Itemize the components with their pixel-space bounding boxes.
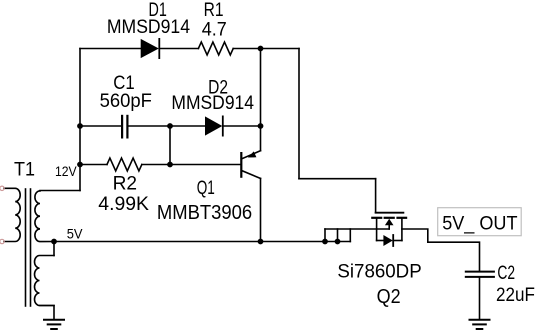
wire D1 cathode to R1	[159, 48, 198, 50]
transformer T1 core	[26, 189, 31, 306]
wire source pins rail tick 1	[324, 229, 326, 242]
wire left vertical (12V rail riser)	[79, 49, 81, 191]
svg-text:MMSD914: MMSD914	[171, 93, 254, 114]
transformer T1 primary winding	[4, 188, 20, 241]
transistor Q1 emitter	[242, 151, 260, 159]
capacitor C2	[466, 272, 494, 277]
wire output from source	[402, 229, 480, 271]
transistor Q1 MMBT3906 base bar	[240, 153, 242, 177]
wire Q1 emitter riser	[260, 126, 262, 151]
diode D2 MMSD914	[205, 116, 223, 135]
svg-text:22uF: 22uF	[496, 285, 535, 306]
net label box 5V_OUT	[438, 208, 522, 236]
svg-text:R1: R1	[204, 0, 224, 21]
junction node emitter	[258, 123, 264, 129]
junction node C1 row left	[77, 123, 83, 129]
transformer T1 secondary winding (12V section)	[35, 191, 54, 242]
wire gate feed horizontal	[299, 178, 376, 180]
svg-text:560pF: 560pF	[100, 91, 152, 112]
wire 5V rail	[54, 241, 350, 243]
ground (transformer)	[44, 320, 64, 329]
svg-text:C2: C2	[497, 263, 515, 284]
wire C2 to ground	[479, 277, 481, 320]
junction node top rail	[258, 46, 264, 52]
wire top rail left	[80, 48, 141, 50]
svg-text:Si7860DP: Si7860DP	[337, 262, 421, 283]
junction node collector on 5V rail	[258, 239, 264, 245]
transformer T1 primary terminal bottom	[0, 239, 4, 243]
junction node 12V	[77, 162, 83, 168]
MOSFET Q2 channel segment 2	[385, 217, 394, 219]
svg-text:4.99K: 4.99K	[98, 194, 149, 215]
capacitor C1	[122, 116, 127, 137]
svg-text:MMSD914: MMSD914	[107, 17, 191, 38]
junction node center tap	[51, 239, 57, 245]
wire body connection	[325, 228, 389, 230]
wire C1 row to R2 row vertical	[169, 126, 171, 165]
svg-text:12V: 12V	[55, 163, 77, 179]
ground (C2)	[470, 320, 490, 329]
wire node to D2 anode	[170, 125, 205, 127]
wire gate feed vertical	[298, 49, 300, 179]
junction node C1/D2	[167, 123, 173, 129]
svg-text:MMBT3906: MMBT3906	[157, 201, 252, 224]
wire emitter node riser	[260, 49, 262, 127]
wire source pins rail tick 3	[349, 229, 351, 242]
wire C1 row left	[80, 125, 121, 127]
MOSFET Q2 gate bar	[376, 212, 404, 214]
wire D2 cathode to emitter node	[223, 125, 261, 127]
resistor R1	[198, 42, 233, 55]
wire center tap drop	[53, 242, 55, 256]
wire top rail to gate drop	[261, 48, 300, 50]
diode D1 MMSD914	[141, 39, 160, 58]
resistor R2	[107, 158, 142, 171]
svg-text:T1: T1	[14, 160, 35, 181]
wire gate feed drop	[375, 179, 377, 213]
transistor Q1 collector	[242, 171, 260, 179]
wire R1 to node	[233, 48, 260, 50]
svg-text:R2: R2	[113, 174, 138, 195]
junction node source pin 2	[335, 239, 341, 245]
svg-text:5V: 5V	[67, 225, 83, 241]
svg-text:Q1: Q1	[197, 178, 215, 199]
transformer T1 secondary winding (5V section)	[35, 256, 55, 306]
MOSFET Q2 body diode	[377, 235, 402, 246]
MOSFET Q2 body arrow	[385, 219, 394, 229]
junction node R2 row	[167, 162, 173, 168]
MOSFET Q2 channel segment 3	[398, 217, 407, 219]
wire 12V winding stub	[40, 190, 80, 192]
MOSFET Q2 source stem	[401, 218, 403, 241]
wire source pins rail tick 2	[337, 229, 339, 242]
MOSFET Q2 channel segment 1	[372, 217, 381, 219]
wire 5V winding to ground stem	[40, 306, 55, 320]
svg-text:4.7: 4.7	[202, 20, 227, 41]
wire C1 to node	[129, 125, 171, 127]
MOSFET Q2 drain stem	[376, 218, 378, 241]
junction node source pin 1	[322, 239, 328, 245]
wire 12V node to R2	[80, 164, 107, 166]
wire R2 to Q1 base	[142, 164, 241, 166]
wire Q1 collector drop	[260, 178, 262, 241]
transformer T1 primary terminal top	[0, 186, 4, 190]
svg-text:Q2: Q2	[377, 285, 401, 308]
svg-text:5V_ OUT: 5V_ OUT	[442, 214, 518, 235]
